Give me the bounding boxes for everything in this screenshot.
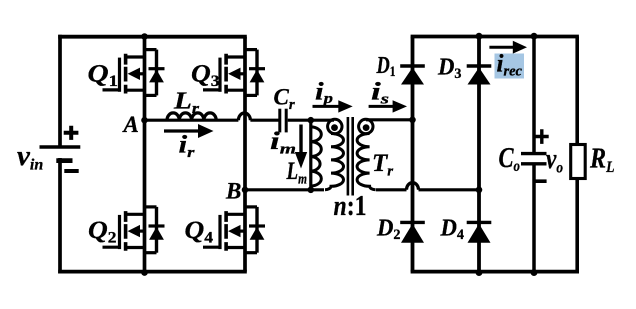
- node B: [242, 187, 249, 194]
- wire hop over right bridge leg: [238, 113, 250, 120]
- transformer T_r primary winding: [328, 119, 342, 133]
- diode D2: [400, 222, 425, 242]
- wire: right rail upper: [575, 37, 579, 145]
- wire: hop to D3-D4 junction: [419, 188, 480, 191]
- MOSFET Q3: [203, 50, 265, 96]
- svg-text:B: B: [225, 179, 241, 204]
- inductor L_m spine wire: [309, 120, 312, 190]
- wire hop over D1-D2 leg: [407, 183, 419, 190]
- wire: rectifier top rail: [411, 35, 579, 39]
- wire: C_r to transformer primary top: [288, 119, 334, 122]
- capacitor C_o bottom plate: [521, 162, 547, 165]
- arrow i_r: [164, 129, 200, 132]
- resistor R_L box: [571, 145, 586, 179]
- junction: bottom rail / C_o leg: [531, 269, 538, 276]
- transformer primary polarity dot: [331, 124, 338, 131]
- wire: input top rail: [58, 35, 247, 39]
- battery v_in short plate: [56, 158, 72, 163]
- junction: secondary top / D1-D2 leg: [409, 117, 416, 124]
- arrow i_rec: [489, 46, 514, 49]
- battery minus sign: [64, 169, 78, 173]
- junction: top rail / C_o leg: [531, 33, 538, 40]
- transformer secondary polarity dot: [363, 124, 370, 131]
- diode D4: [467, 222, 492, 242]
- wire: rectifier bottom rail: [411, 270, 579, 274]
- svg-text:n:1: n:1: [334, 191, 367, 222]
- plus sign output: [535, 129, 549, 144]
- junction: L_m bottom: [308, 187, 315, 194]
- wire: left bridge leg: [143, 37, 147, 272]
- node A: [141, 117, 148, 124]
- capacitor C_r plate 2: [285, 109, 288, 133]
- wire: left source rail upper segment: [58, 35, 62, 147]
- junction: bottom rail / left leg: [141, 269, 148, 276]
- capacitor C_o top plate: [521, 152, 547, 155]
- battery plus sign: [64, 126, 79, 140]
- wire: node A to C_r (left part): [145, 119, 239, 122]
- wire: input bottom rail: [58, 270, 247, 274]
- transformer core line 2: [351, 117, 354, 196]
- wire: C_o leg upper: [532, 37, 536, 153]
- wire: node B row to primary bottom: [245, 188, 324, 191]
- inductor L_m humps: [311, 127, 322, 186]
- minus sign output: [535, 179, 547, 183]
- wire: secondary bottom to hop: [376, 188, 407, 191]
- diode D1: [400, 66, 425, 85]
- junction: bottom rail / D4 leg: [476, 269, 483, 276]
- transformer core line 1: [347, 117, 350, 196]
- wire: hop to C_r plate: [250, 119, 278, 122]
- arrow i_s: [369, 105, 394, 108]
- MOSFET Q1: [103, 50, 165, 96]
- wire: left source rail lower segment: [58, 158, 62, 274]
- wire: D1-D2 leg: [411, 37, 415, 272]
- svg-text:A: A: [122, 112, 139, 137]
- wire: C_o leg lower: [532, 165, 536, 271]
- diode D3: [467, 66, 492, 85]
- junction: secondary bottom / D3-D4 leg: [476, 187, 483, 194]
- wire: right rail lower: [575, 178, 579, 274]
- junction: top rail / left leg: [141, 33, 148, 40]
- wire: secondary top to rectifier: [366, 118, 413, 121]
- MOSFET Q4: [203, 207, 265, 253]
- junction: C_r / L_m top: [308, 117, 315, 124]
- MOSFET Q2: [103, 207, 165, 253]
- arrow i_p: [313, 105, 340, 108]
- inductor L_r humps: [167, 113, 216, 120]
- battery v_in long plate: [40, 145, 81, 148]
- wire: right bridge leg: [243, 37, 247, 272]
- junction: top rail / D3 leg: [476, 33, 483, 40]
- wire: D3-D4 leg: [477, 37, 481, 272]
- highlight box for i_rec: [495, 54, 525, 79]
- arrow i_m: [299, 125, 302, 154]
- capacitor C_r plate 1: [278, 109, 281, 133]
- transformer T_r secondary winding: [359, 119, 373, 133]
